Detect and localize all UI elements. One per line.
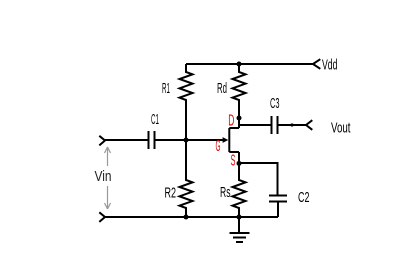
node R2 bottom dot xyxy=(184,215,189,220)
node top rail Rd dot xyxy=(237,62,242,67)
capacitor C2 xyxy=(269,196,287,218)
svg-text:C1: C1 xyxy=(151,111,159,128)
svg-text:R1: R1 xyxy=(162,80,170,97)
capacitor C3 xyxy=(272,116,278,134)
svg-text:Rs: Rs xyxy=(220,184,231,201)
svg-text:Vdd: Vdd xyxy=(322,57,338,74)
resistor Rd xyxy=(233,64,246,117)
wire source to C2 xyxy=(239,163,278,195)
svg-text:Vout: Vout xyxy=(331,120,351,137)
resistor Rs xyxy=(233,163,246,217)
wire bottom rail xyxy=(105,216,278,218)
node on Vout wire xyxy=(290,123,293,126)
svg-text:C2: C2 xyxy=(298,189,310,206)
node drain dot xyxy=(237,116,242,121)
resistor R1 xyxy=(180,64,193,140)
wire gate line xyxy=(105,139,148,141)
transistor gate arrowhead xyxy=(223,137,229,143)
svg-text:Rd: Rd xyxy=(217,80,227,97)
terminal Vout xyxy=(306,120,312,130)
resistor R2 xyxy=(180,140,193,217)
capacitor C1 xyxy=(149,131,155,149)
wire C3 to Vout terminal xyxy=(279,124,307,126)
terminal input bottom xyxy=(99,212,105,222)
Vin arrow xyxy=(105,147,111,209)
node gate bias dot xyxy=(184,138,189,143)
node source dot xyxy=(237,161,242,166)
wire drain to C3 xyxy=(239,124,271,126)
node ground dot xyxy=(237,215,242,220)
svg-text:S: S xyxy=(231,153,236,170)
svg-text:D: D xyxy=(228,113,234,130)
terminal Vdd xyxy=(313,59,320,69)
terminal input top xyxy=(99,136,105,146)
svg-text:R2: R2 xyxy=(165,185,177,202)
wire gate line right of C1 xyxy=(156,139,225,141)
transistor Q1 xyxy=(229,118,239,163)
svg-text:C3: C3 xyxy=(270,95,280,112)
ground xyxy=(230,217,250,242)
svg-text:G: G xyxy=(216,138,221,155)
svg-text:Vin: Vin xyxy=(95,168,112,185)
wire top Vdd rail xyxy=(186,63,313,65)
